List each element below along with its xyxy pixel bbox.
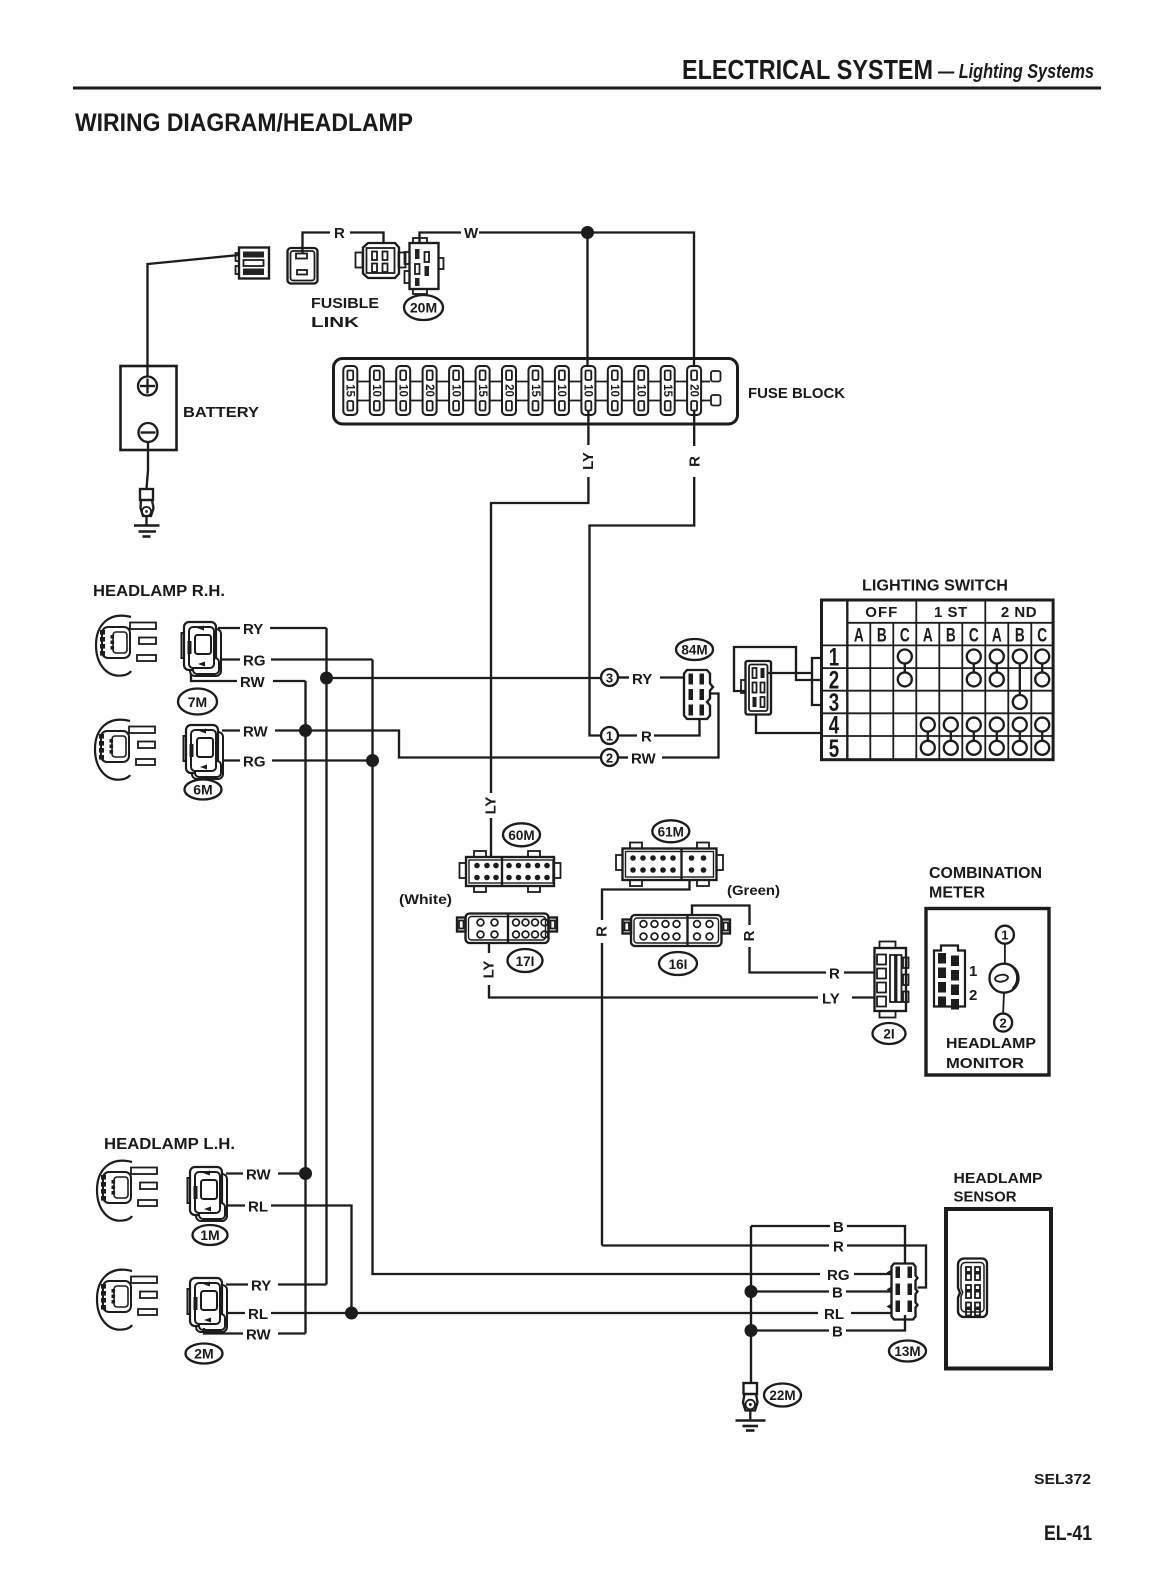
svg-text:10: 10: [582, 384, 594, 397]
svg-text:B: B: [1015, 624, 1025, 646]
wire RW from 2M: [204, 1327, 306, 1344]
svg-text:RW: RW: [240, 674, 266, 691]
oval label 60M: [503, 823, 540, 846]
connector 2I: [875, 942, 909, 1018]
svg-text:HEADLAMP L.H.: HEADLAMP L.H.: [104, 1136, 235, 1153]
battery ground terminal 22M-style lug: [140, 489, 154, 516]
oval label 2M: [186, 1344, 223, 1364]
oval label 6M: [185, 780, 222, 800]
svg-text:20: 20: [502, 384, 514, 397]
label (White): [399, 891, 452, 907]
svg-text:METER: METER: [929, 885, 985, 902]
svg-text:20: 20: [423, 384, 435, 397]
fuse F7 (20A): [502, 366, 516, 415]
svg-text:RL: RL: [824, 1306, 844, 1323]
wire RY to 84M: [618, 671, 684, 688]
svg-text:20M: 20M: [410, 300, 437, 316]
page header: ELECTRICAL SYSTEM - Lighting Systems: [73, 54, 1101, 90]
svg-text:2 ND: 2 ND: [1001, 604, 1037, 621]
wire switch connector to table rows 1 and 3: [768, 658, 822, 705]
ground terminal 22M: [743, 1383, 758, 1411]
fusible link connector (striped): [236, 248, 270, 279]
svg-text:A: A: [923, 624, 933, 646]
svg-text:R: R: [641, 729, 652, 746]
wire RG label near sensor: [827, 1267, 892, 1284]
fuse block spare slots (dashed): [701, 371, 721, 406]
connector 6M: [184, 725, 224, 779]
svg-text:SEL372: SEL372: [1034, 1471, 1091, 1488]
junction node on W wire: [581, 226, 594, 239]
wire RG vertical run to headlamp sensor: [373, 660, 821, 1275]
wire LY from 17I to 2I: [481, 943, 875, 1008]
lighting switch connector: [741, 661, 771, 715]
svg-text:OFF: OFF: [865, 604, 898, 621]
svg-text:RW: RW: [243, 724, 269, 741]
svg-text:16I: 16I: [669, 957, 688, 972]
junction node RW at 1M: [299, 1167, 312, 1180]
wire battery positive to fusible link: [148, 255, 240, 377]
wire B bottom from 13M: [751, 1315, 905, 1341]
svg-text:B: B: [833, 1219, 844, 1236]
connector 84M: [684, 670, 713, 719]
wire RY from 2M: [226, 1278, 327, 1295]
wire RW vertical run 7M to 2M: [304, 681, 306, 1334]
connector 61M: [616, 843, 723, 887]
svg-text:(Green): (Green): [727, 882, 780, 898]
sensor internal connector: [958, 1258, 987, 1317]
oval label 1M: [193, 1225, 228, 1245]
svg-text:60M: 60M: [508, 828, 534, 843]
svg-text:3: 3: [606, 671, 613, 686]
svg-text:LY: LY: [481, 961, 498, 979]
fuse F11 (10A): [608, 366, 622, 415]
svg-text:RW: RW: [246, 1327, 272, 1344]
svg-text:2I: 2I: [883, 1027, 894, 1042]
svg-text:C: C: [969, 624, 979, 646]
svg-text:RG: RG: [243, 653, 266, 670]
svg-text:BATTERY: BATTERY: [183, 404, 259, 421]
svg-text:20: 20: [687, 384, 699, 397]
wire RW from 1M: [226, 1167, 306, 1184]
svg-text:1 ST: 1 ST: [934, 604, 968, 621]
svg-text:C: C: [1037, 624, 1047, 646]
junction node RY branch: [320, 672, 333, 685]
label (Green): [727, 882, 780, 898]
svg-text:R: R: [829, 966, 840, 983]
svg-text:FUSIBLE: FUSIBLE: [311, 295, 379, 312]
svg-text:RG: RG: [243, 754, 266, 771]
svg-text:B: B: [946, 624, 956, 646]
oval label 17I: [508, 949, 543, 972]
svg-text:ELECTRICAL SYSTEM: ELECTRICAL SYSTEM: [682, 54, 933, 85]
svg-text:7M: 7M: [188, 694, 207, 710]
monitor pin 2 circled: [994, 1014, 1012, 1032]
headlamp bulb RH low: [95, 720, 155, 780]
fuse F8 (15A): [529, 366, 543, 415]
svg-text:10: 10: [555, 384, 567, 397]
svg-text:B: B: [832, 1285, 843, 1302]
wire RW from 6M to switch pin 2: [222, 724, 601, 758]
svg-text:R: R: [741, 930, 758, 941]
svg-text:1: 1: [606, 729, 613, 744]
wire R: fusible link to connector: [303, 225, 384, 254]
wire RY from 7M: [218, 621, 327, 638]
fuse F5 (10A): [449, 366, 463, 415]
wire W: 20M to fuse block feeds: [420, 225, 695, 368]
oval label 61M: [652, 820, 689, 842]
fuse F14 (20A): [687, 366, 701, 415]
svg-text:R: R: [334, 225, 345, 242]
svg-text:MONITOR: MONITOR: [946, 1055, 1024, 1072]
svg-text:84M: 84M: [681, 643, 707, 658]
svg-text:15: 15: [529, 384, 541, 397]
fuse F12 (10A): [634, 366, 648, 415]
svg-text:10: 10: [449, 384, 461, 397]
fusible link 4-pin connector: [356, 243, 406, 278]
svg-text:RG: RG: [827, 1267, 850, 1284]
headlamp bulb LH high: [97, 1161, 157, 1221]
fuse F13 (15A): [661, 366, 675, 415]
switch pin 1 circled: [601, 727, 618, 744]
monitor lamp: [990, 964, 1019, 993]
wire R from fuse block to switch pin 1: [590, 411, 704, 736]
wire RG from 7M: [220, 653, 373, 670]
svg-text:10: 10: [635, 384, 647, 397]
svg-text:A: A: [854, 624, 864, 646]
svg-text:15: 15: [661, 384, 673, 397]
svg-text:(White): (White): [399, 891, 452, 907]
connector 16I: [623, 915, 731, 946]
LIGHTING SWITCH table: [822, 578, 1054, 763]
COMBINATION METER box: [926, 865, 1049, 1075]
ground symbol below battery: [134, 516, 160, 537]
svg-text:RY: RY: [251, 1278, 271, 1295]
junction node RW at 6M: [299, 724, 312, 737]
wire RG from 6M: [222, 754, 373, 771]
wire switch connector to table row 2: [734, 647, 822, 691]
meter internal connector: [934, 946, 977, 1010]
junction node RG: [366, 754, 379, 767]
svg-text:15: 15: [476, 384, 488, 397]
connector 20M: [405, 238, 444, 294]
HEADLAMP SENSOR box: [946, 1170, 1051, 1369]
svg-text:SENSOR: SENSOR: [954, 1189, 1017, 1206]
svg-text:C: C: [900, 624, 910, 646]
fuse F3 (10A): [396, 366, 410, 415]
svg-text:R: R: [833, 1239, 844, 1256]
svg-text:1M: 1M: [200, 1227, 219, 1243]
svg-text:HEADLAMP: HEADLAMP: [954, 1170, 1043, 1187]
svg-text:RL: RL: [248, 1199, 268, 1216]
oval label 7M: [178, 689, 217, 715]
wire RL from 2M to headlamp sensor: [226, 1306, 892, 1323]
fuse block: [334, 359, 846, 425]
svg-text:HEADLAMP R.H.: HEADLAMP R.H.: [93, 583, 225, 600]
wire LY from fuse block: [483, 411, 598, 857]
svg-text:5: 5: [829, 734, 839, 762]
ground symbol 22M: [736, 1411, 766, 1431]
svg-text:HEADLAMP: HEADLAMP: [946, 1035, 1036, 1052]
connector 60M: [460, 851, 561, 892]
wire B top to 13M: [751, 1219, 905, 1264]
oval label 22M: [764, 1384, 801, 1407]
fuse F6 (15A): [476, 366, 490, 415]
wire switch connector to table row 4: [756, 715, 822, 734]
wire pin1 to lamp: [1004, 944, 1006, 964]
wire lamp to pin 2: [1002, 993, 1005, 1014]
connector 1M: [188, 1167, 228, 1221]
junction node B bottom: [745, 1324, 758, 1337]
wire R from 61M to headlamp sensor: [594, 880, 690, 1246]
page title: WIRING DIAGRAM/HEADLAMP: [75, 109, 413, 137]
wire R to 13M right side: [602, 1239, 926, 1288]
lighting switch contact circles: [898, 650, 1049, 755]
svg-text:R: R: [594, 926, 611, 937]
svg-text:6M: 6M: [193, 782, 212, 798]
wire RW to 84M: [618, 694, 719, 768]
wire battery negative to ground: [147, 442, 149, 489]
oval label 84M: [676, 639, 713, 660]
svg-text:2: 2: [969, 987, 977, 1004]
svg-text:A: A: [992, 624, 1002, 646]
wire RL from 1M: [226, 1199, 352, 1314]
svg-text:2: 2: [606, 751, 613, 766]
headlamp bulb LH low: [97, 1270, 157, 1330]
oval label 20M: [404, 295, 443, 320]
switch pin 2 circled: [601, 749, 618, 766]
fusible link body: [288, 248, 380, 331]
fuse F10 (10A): [581, 366, 595, 415]
svg-text:EL-41: EL-41: [1044, 1522, 1092, 1545]
junction node B middle: [745, 1285, 758, 1298]
connector 7M: [182, 622, 222, 676]
svg-text:10: 10: [608, 384, 620, 397]
svg-text:COMBINATION: COMBINATION: [929, 865, 1042, 882]
HEADLAMP R.H. section label: [93, 583, 225, 600]
svg-text:1: 1: [969, 963, 977, 980]
svg-text:LY: LY: [822, 991, 840, 1008]
svg-text:RY: RY: [632, 671, 652, 688]
svg-text:10: 10: [397, 384, 409, 397]
oval label 13M: [889, 1341, 926, 1362]
svg-text:17I: 17I: [516, 954, 535, 969]
svg-text:2: 2: [999, 1016, 1006, 1031]
fuse F9 (10A): [555, 366, 569, 415]
junction node RL: [345, 1307, 358, 1320]
svg-text:W: W: [464, 225, 479, 242]
svg-text:13M: 13M: [894, 1344, 920, 1359]
svg-text:RW: RW: [246, 1167, 272, 1184]
svg-text:RW: RW: [631, 751, 657, 768]
ground bus vertical to 22M: [750, 1226, 752, 1383]
svg-text:WIRING DIAGRAM/HEADLAMP: WIRING DIAGRAM/HEADLAMP: [75, 109, 413, 137]
svg-text:LY: LY: [483, 797, 500, 815]
connector 13M: [887, 1264, 918, 1320]
svg-text:61M: 61M: [658, 824, 684, 839]
svg-text:15: 15: [344, 384, 356, 397]
svg-text:B: B: [832, 1324, 843, 1341]
HEADLAMP L.H. section label: [104, 1136, 235, 1153]
svg-text:2M: 2M: [194, 1346, 213, 1362]
svg-text:— Lighting Systems: — Lighting Systems: [937, 61, 1094, 83]
svg-text:10: 10: [370, 384, 382, 397]
svg-text:22M: 22M: [769, 1388, 795, 1403]
monitor pin 1 circled: [996, 926, 1014, 944]
wire R from 16I to 2I: [692, 906, 875, 983]
oval label 2I: [873, 1023, 906, 1044]
page number EL-41: [1044, 1522, 1092, 1545]
headlamp bulb RH high: [96, 616, 156, 676]
svg-text:R: R: [687, 456, 704, 467]
connector 17I: [457, 914, 557, 944]
wire R to 84M: [618, 720, 700, 746]
battery B1: [121, 366, 260, 450]
fuse F1 (15A): [343, 366, 357, 415]
svg-text:RL: RL: [248, 1306, 268, 1323]
connector 2M: [188, 1278, 228, 1332]
svg-text:LIGHTING SWITCH: LIGHTING SWITCH: [862, 578, 1008, 595]
svg-text:1: 1: [1001, 928, 1008, 943]
wire RY vertical run 7M to 2M: [325, 628, 327, 1285]
wire RW from 7M: [191, 674, 306, 691]
svg-text:B: B: [877, 624, 887, 646]
svg-text:RY: RY: [243, 621, 263, 638]
wire RY branch to switch pin 3: [327, 677, 602, 679]
svg-text:LINK: LINK: [311, 314, 359, 331]
switch pin 3 circled: [601, 669, 618, 686]
fuse F4 (20A): [423, 366, 437, 415]
oval label 16I: [659, 952, 697, 975]
wire B middle to 13M: [751, 1285, 892, 1302]
footer reference SEL372: [1034, 1471, 1091, 1488]
fuse F2 (10A): [370, 366, 384, 415]
svg-text:FUSE BLOCK: FUSE BLOCK: [748, 385, 845, 402]
svg-text:LY: LY: [580, 452, 597, 470]
